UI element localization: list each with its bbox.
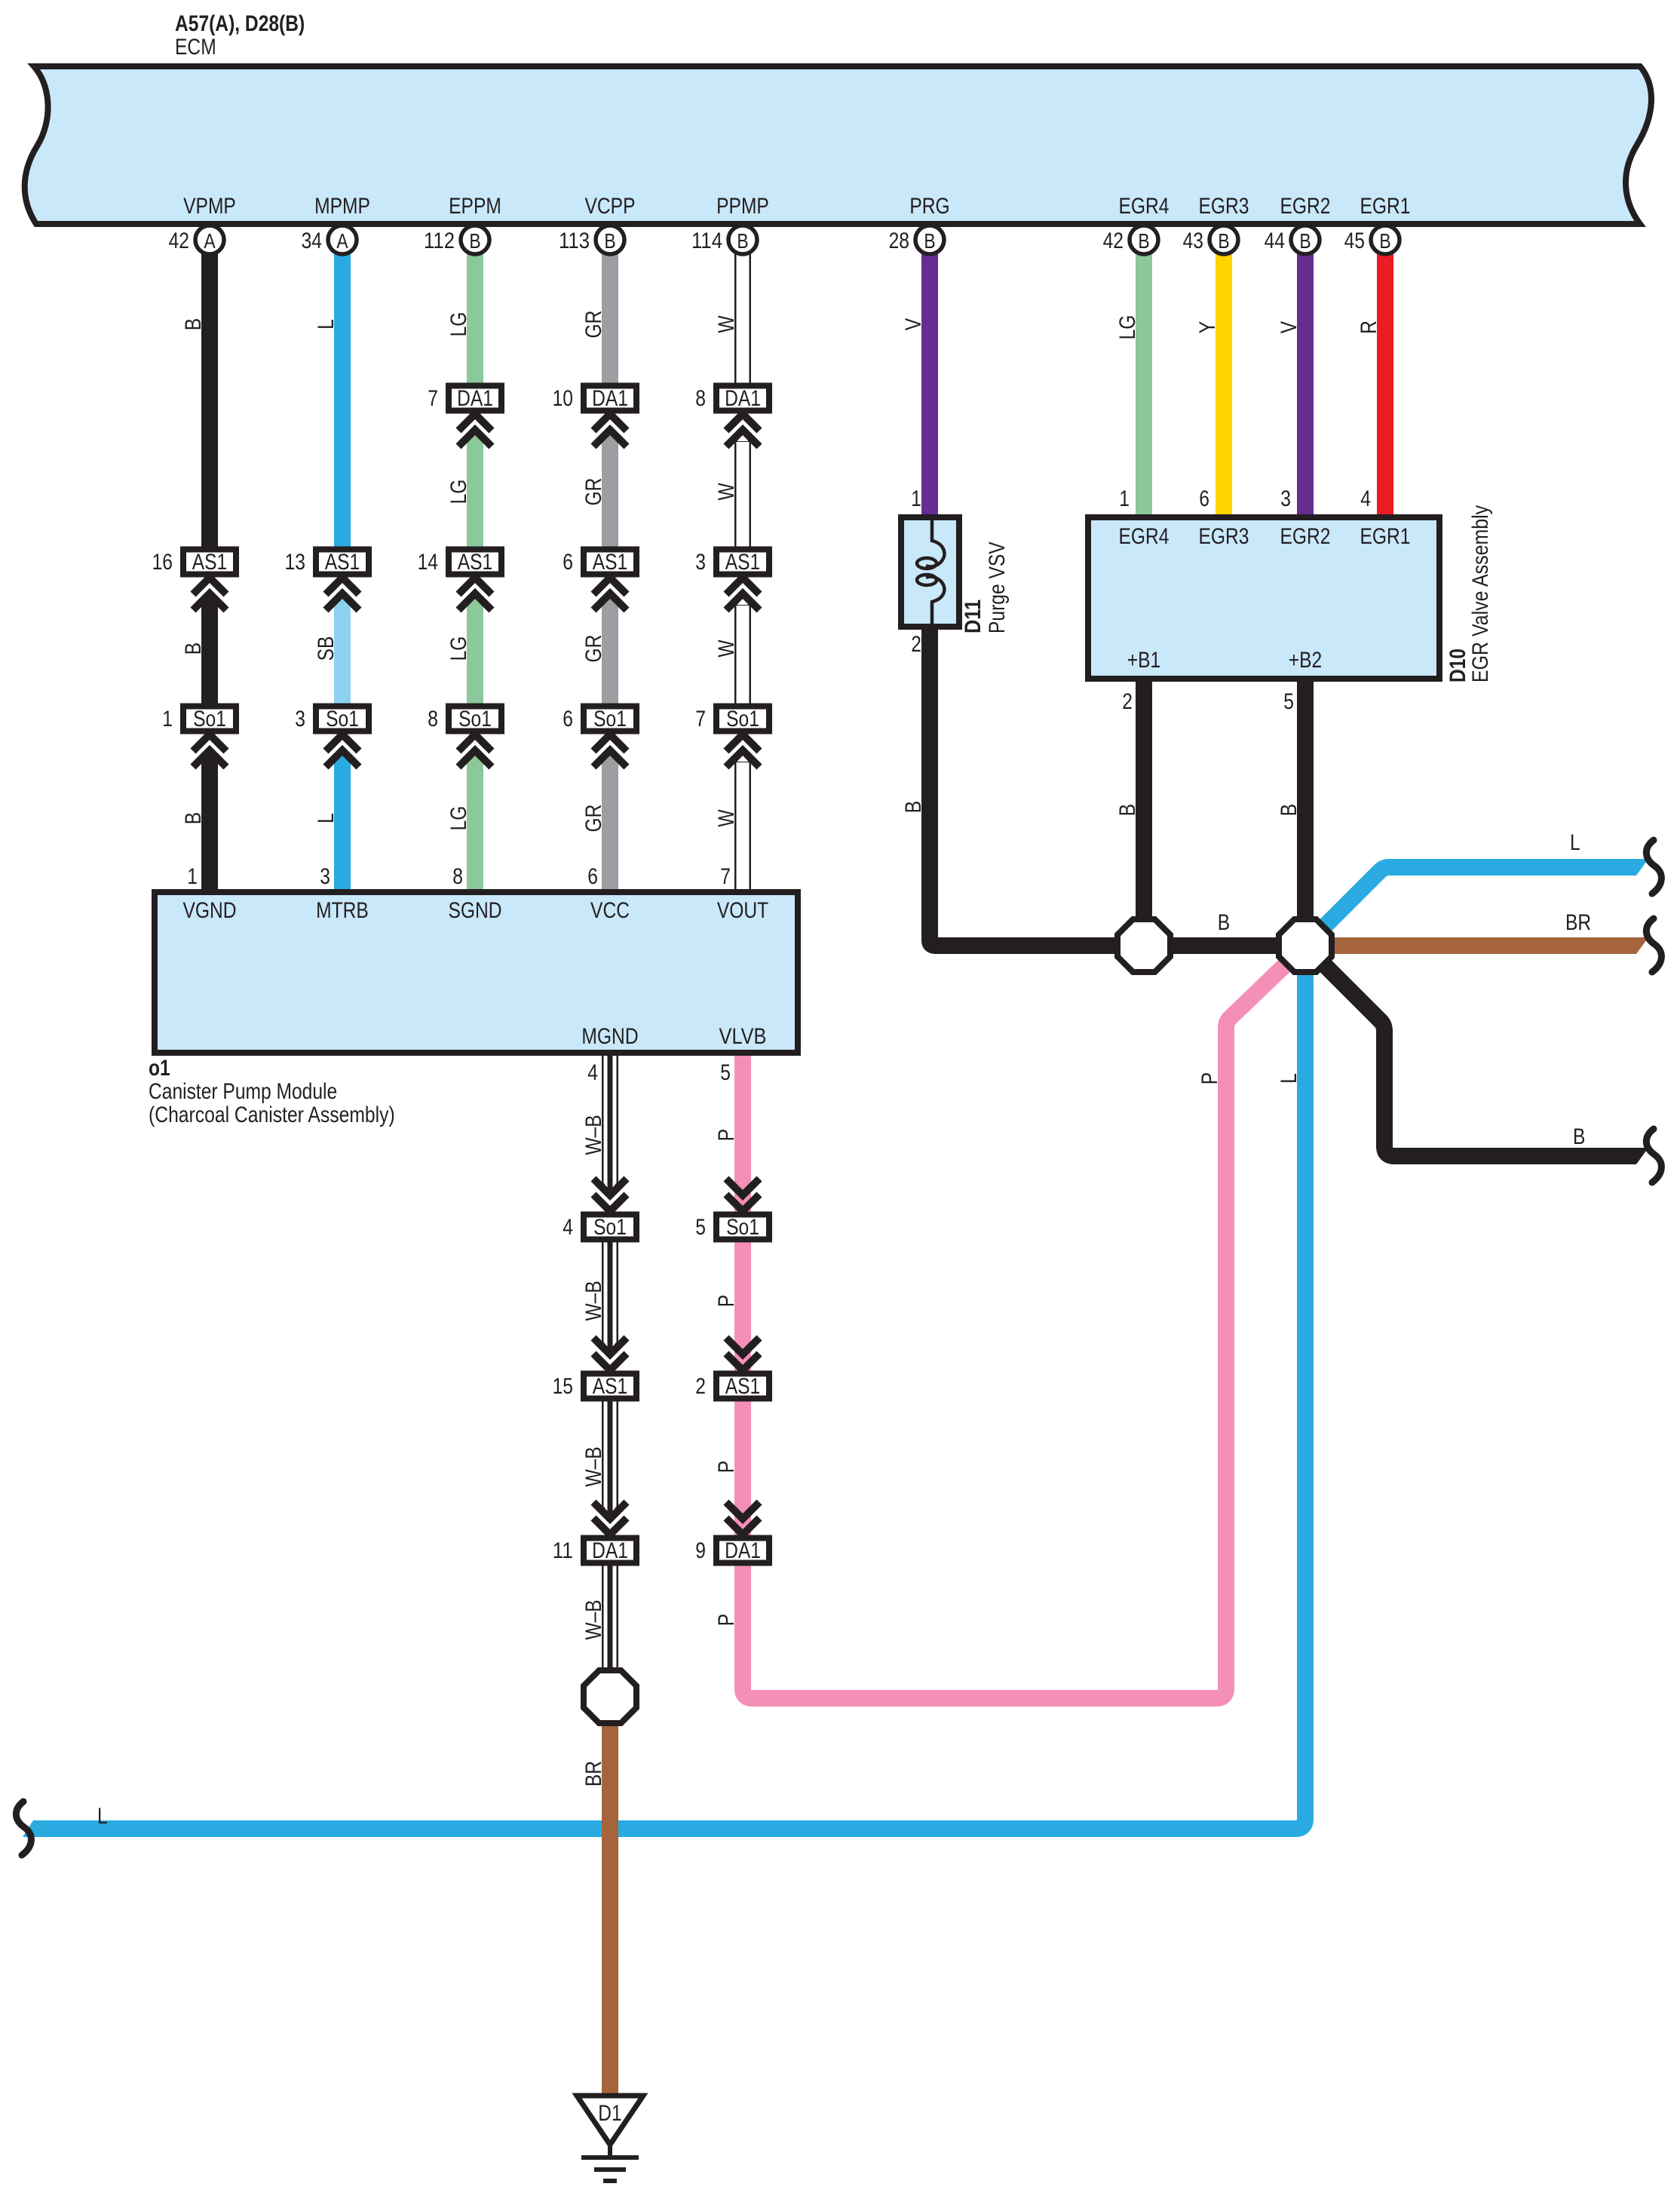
svg-text:LG: LG [446,806,471,831]
svg-text:D1: D1 [598,2101,621,2126]
svg-text:5: 5 [695,1215,706,1240]
svg-text:VCPP: VCPP [585,194,636,219]
svg-text:B: B [1573,1124,1585,1149]
svg-text:2: 2 [1122,689,1133,714]
svg-text:PPMP: PPMP [716,194,769,219]
svg-text:8: 8 [452,864,463,889]
svg-text:B: B [1115,804,1140,816]
svg-text:B: B [1299,229,1311,253]
svg-text:L: L [314,319,339,330]
svg-text:B: B [181,318,206,330]
svg-text:42: 42 [169,228,189,253]
svg-text:1: 1 [1119,486,1130,511]
svg-text:D11: D11 [961,600,986,633]
svg-text:B: B [924,229,935,253]
svg-text:DA1: DA1 [457,386,493,411]
svg-text:(Charcoal Canister Assembly): (Charcoal Canister Assembly) [149,1103,395,1127]
svg-text:B: B [1277,804,1301,816]
svg-text:7: 7 [695,707,706,731]
svg-text:11: 11 [553,1538,573,1563]
svg-text:3: 3 [695,550,706,575]
svg-text:MGND: MGND [581,1024,638,1049]
svg-text:LG: LG [1115,315,1140,340]
svg-text:B: B [1138,229,1149,253]
svg-text:AS1: AS1 [192,550,228,575]
svg-text:So1: So1 [193,707,226,731]
svg-text:16: 16 [152,550,173,575]
svg-text:DA1: DA1 [592,1538,628,1563]
svg-text:B: B [901,801,926,813]
svg-text:o1: o1 [149,1056,170,1081]
svg-text:LG: LG [446,312,471,337]
svg-text:DA1: DA1 [725,386,761,411]
svg-text:AS1: AS1 [725,550,761,575]
svg-text:+B1: +B1 [1127,648,1161,673]
svg-text:So1: So1 [593,1215,627,1240]
svg-text:AS1: AS1 [458,550,493,575]
svg-text:P: P [714,1295,739,1307]
svg-text:114: 114 [691,228,722,253]
svg-text:W–B: W–B [581,1115,606,1155]
svg-text:7: 7 [428,386,438,411]
svg-text:R: R [1357,320,1381,334]
svg-text:SB: SB [314,636,339,661]
svg-text:1: 1 [911,486,921,511]
svg-text:L: L [314,813,339,823]
svg-text:3: 3 [295,707,305,731]
svg-text:43: 43 [1183,228,1203,253]
svg-text:1: 1 [162,707,173,731]
svg-text:+B2: +B2 [1289,648,1323,673]
svg-text:MPMP: MPMP [314,194,370,219]
svg-text:ECM: ECM [175,35,216,60]
svg-text:8: 8 [695,386,706,411]
svg-text:B: B [737,229,748,253]
svg-text:5: 5 [720,1060,731,1085]
svg-text:45: 45 [1344,228,1365,253]
svg-text:5: 5 [1283,689,1294,714]
svg-text:AS1: AS1 [725,1374,761,1399]
svg-text:W: W [714,315,739,333]
svg-text:P: P [714,1461,739,1473]
svg-text:P: P [714,1129,739,1141]
svg-text:44: 44 [1265,228,1285,253]
svg-text:V: V [1277,321,1301,333]
svg-text:AS1: AS1 [593,550,628,575]
svg-text:VCC: VCC [590,898,630,923]
svg-text:So1: So1 [593,707,627,731]
svg-text:EGR1: EGR1 [1360,524,1411,549]
svg-text:EGR3: EGR3 [1199,194,1249,219]
svg-text:LG: LG [446,480,471,504]
svg-text:L: L [1277,1073,1301,1084]
svg-text:6: 6 [563,550,573,575]
svg-text:L: L [1570,830,1580,855]
svg-text:So1: So1 [726,707,759,731]
svg-text:VGND: VGND [182,898,236,923]
svg-text:B: B [181,812,206,824]
svg-text:GR: GR [581,311,606,339]
svg-text:112: 112 [424,228,455,253]
svg-text:B: B [604,229,615,253]
svg-text:P: P [714,1614,739,1626]
svg-text:EGR3: EGR3 [1199,524,1249,549]
svg-text:So1: So1 [326,707,359,731]
svg-text:28: 28 [889,228,909,253]
svg-text:113: 113 [559,228,590,253]
svg-text:34: 34 [302,228,322,253]
svg-text:W: W [714,483,739,501]
svg-text:A: A [336,229,348,253]
svg-text:V: V [901,318,926,330]
svg-text:GR: GR [581,635,606,663]
svg-text:VOUT: VOUT [717,898,768,923]
svg-text:EGR4: EGR4 [1119,524,1170,549]
svg-text:10: 10 [553,386,573,411]
svg-text:7: 7 [720,864,731,889]
svg-text:So1: So1 [458,707,492,731]
svg-text:W–B: W–B [581,1446,606,1486]
svg-text:B: B [469,229,480,253]
svg-text:6: 6 [1199,486,1209,511]
svg-text:VLVB: VLVB [719,1024,767,1049]
svg-text:GR: GR [581,805,606,833]
svg-text:3: 3 [1280,486,1291,511]
svg-text:GR: GR [581,478,606,506]
svg-text:42: 42 [1103,228,1124,253]
svg-text:Purge VSV: Purge VSV [985,541,1010,633]
svg-text:EGR4: EGR4 [1119,194,1170,219]
svg-text:SGND: SGND [448,898,501,923]
svg-text:B: B [1379,229,1390,253]
svg-text:4: 4 [1360,486,1371,511]
svg-text:AS1: AS1 [593,1374,628,1399]
svg-text:W: W [714,639,739,658]
svg-text:W: W [714,809,739,827]
svg-text:8: 8 [428,707,438,731]
svg-text:A: A [204,229,216,253]
svg-text:W–B: W–B [581,1599,606,1639]
svg-text:A57(A), D28(B): A57(A), D28(B) [175,11,305,36]
svg-text:MTRB: MTRB [316,898,369,923]
svg-text:B: B [181,643,206,655]
svg-text:B: B [1218,910,1230,935]
svg-text:2: 2 [695,1374,706,1399]
svg-text:DA1: DA1 [592,386,628,411]
svg-text:P: P [1197,1072,1222,1084]
svg-text:EGR1: EGR1 [1360,194,1411,219]
svg-text:EGR2: EGR2 [1280,524,1331,549]
svg-text:Canister Pump Module: Canister Pump Module [149,1079,337,1104]
svg-text:Y: Y [1195,321,1220,333]
svg-text:BR: BR [581,1761,606,1786]
svg-text:VPMP: VPMP [183,194,236,219]
svg-text:LG: LG [446,636,471,661]
svg-text:W–B: W–B [581,1280,606,1320]
svg-text:EGR Valve Assembly: EGR Valve Assembly [1468,505,1493,682]
svg-text:So1: So1 [726,1215,759,1240]
svg-text:PRG: PRG [909,194,949,219]
svg-text:1: 1 [187,864,198,889]
svg-text:L: L [97,1804,108,1829]
svg-text:3: 3 [320,864,330,889]
svg-text:2: 2 [911,632,921,657]
svg-text:6: 6 [587,864,598,889]
svg-text:14: 14 [418,550,438,575]
svg-text:4: 4 [563,1215,573,1240]
svg-text:B: B [1218,229,1229,253]
svg-text:D10: D10 [1445,649,1470,682]
svg-text:9: 9 [695,1538,706,1563]
svg-text:15: 15 [553,1374,573,1399]
svg-text:6: 6 [563,707,573,731]
svg-text:4: 4 [587,1060,598,1085]
svg-text:AS1: AS1 [325,550,360,575]
svg-text:13: 13 [285,550,305,575]
svg-text:DA1: DA1 [725,1538,761,1563]
svg-text:BR: BR [1565,910,1591,935]
svg-text:EGR2: EGR2 [1280,194,1331,219]
svg-text:EPPM: EPPM [449,194,501,219]
